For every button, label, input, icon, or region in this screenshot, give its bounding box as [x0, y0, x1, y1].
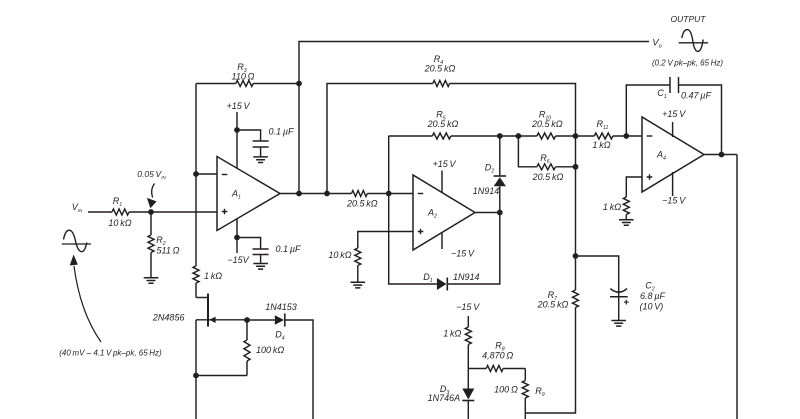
wire C1 loop — [626, 85, 670, 136]
wire rail D vertical — [575, 136, 577, 290]
node Vo label — [652, 38, 661, 50]
ground under A1 -15V cap — [253, 264, 268, 270]
svg-text:1 kΩ: 1 kΩ — [443, 329, 461, 339]
source sine symbol — [62, 230, 91, 251]
wire R7 to bottom corner — [525, 308, 575, 414]
wire A1 +15V supply pin — [226, 101, 250, 168]
wire A1 -15V supply pin — [227, 219, 249, 266]
svg-text:+15 V: +15 V — [662, 109, 686, 119]
ground under A4 1k — [619, 220, 634, 226]
ground under 10k — [351, 282, 366, 288]
svg-text:(40 mV – 4.1 V pk–pk, 65 Hz): (40 mV – 4.1 V pk–pk, 65 Hz) — [59, 349, 162, 358]
wire source line off page — [195, 376, 197, 419]
node rail D top junction — [573, 133, 579, 139]
svg-text:1N914: 1N914 — [473, 186, 500, 196]
wire A2 -15V supply pin — [442, 233, 475, 259]
resistor 1k zener branch — [443, 316, 471, 369]
op-amp A2 — [413, 175, 475, 250]
wire D1 to A2 output — [448, 213, 500, 285]
svg-text:0.1 µF: 0.1 µF — [276, 244, 301, 254]
node A2 output junction — [497, 210, 503, 216]
label -15V zener branch — [456, 302, 480, 312]
wire A2 +15V supply pin — [432, 159, 456, 193]
op-amp A4 — [642, 117, 704, 192]
output sine symbol — [679, 30, 709, 52]
wire A1 - input — [196, 173, 217, 175]
node A1 -15V bypass tap — [234, 235, 240, 241]
svg-text:R9: R9 — [535, 386, 545, 398]
ground under C2 — [611, 321, 626, 327]
svg-text:0.47 µF: 0.47 µF — [681, 91, 712, 101]
ground under R2 — [144, 278, 159, 284]
node A4 - input junction — [623, 133, 629, 139]
svg-text:20.5 kΩ: 20.5 kΩ — [427, 119, 459, 129]
wire R4 loop — [327, 84, 433, 194]
resistor 20.5k interstage — [346, 191, 378, 209]
capacitor 0.1uF at A1 -15V — [237, 238, 301, 264]
node R6 right junction — [573, 164, 579, 170]
wire D1 feedback left — [389, 136, 437, 284]
wire JFET gate to node C — [196, 319, 247, 321]
diode D1 1N914 — [423, 272, 479, 291]
node B feedback-output junction — [296, 81, 302, 87]
svg-text:R1: R1 — [113, 196, 123, 208]
diode D3 zener 1N746A — [428, 369, 475, 419]
resistor 1k feedback — [193, 174, 222, 298]
svg-text:20.5 kΩ: 20.5 kΩ — [424, 64, 456, 74]
resistor R9 — [494, 369, 545, 414]
svg-text:−15V: −15V — [227, 255, 249, 265]
node R6 left junction — [516, 133, 522, 139]
resistor R4 — [424, 54, 456, 87]
svg-text:100 Ω: 100 Ω — [494, 385, 518, 395]
resistor R6 — [532, 153, 564, 182]
resistor R3 — [232, 62, 255, 87]
wire A4 output feedback off page — [736, 155, 738, 419]
resistor 100k — [244, 320, 284, 376]
curved arrow to source symbol — [70, 255, 101, 343]
node A1 +15V bypass tap — [234, 127, 240, 133]
wire R6 to rail D — [556, 166, 576, 168]
svg-text:1 kΩ: 1 kΩ — [603, 202, 621, 212]
svg-text:D4: D4 — [275, 330, 285, 342]
node Vin input terminal label — [72, 202, 83, 213]
wire A4 output — [704, 154, 737, 156]
svg-text:1N4153: 1N4153 — [265, 302, 297, 312]
wire A4 -15V supply pin — [662, 172, 686, 206]
wire to Vo output — [299, 42, 649, 84]
label 0.05 Vin with curved arrow — [137, 169, 166, 208]
svg-text:VIN: VIN — [72, 202, 83, 213]
svg-text:0.05 VIN: 0.05 VIN — [137, 169, 166, 180]
wire to A2 - input — [367, 193, 413, 195]
wire feedback vertical to R3 — [195, 84, 197, 175]
node D2 top junction — [497, 133, 503, 139]
svg-text:+15 V: +15 V — [226, 101, 250, 111]
resistor R7 — [537, 290, 579, 310]
capacitor 0.1uF at A1 +15V — [237, 127, 294, 157]
wire R1 to node A and A1 + input — [129, 211, 217, 213]
svg-text:10 kΩ: 10 kΩ — [328, 250, 351, 260]
node C2 tap junction — [573, 253, 579, 259]
wire R9 off page — [524, 413, 526, 419]
wire R5 to R10 — [451, 135, 537, 137]
svg-text:D2: D2 — [485, 163, 495, 175]
svg-text:110 Ω: 110 Ω — [232, 72, 255, 82]
svg-text:R11: R11 — [597, 119, 609, 131]
svg-text:6.8 µF: 6.8 µF — [640, 291, 665, 301]
svg-text:20.5 kΩ: 20.5 kΩ — [346, 199, 378, 209]
svg-text:Vo: Vo — [652, 38, 661, 50]
node A1 output junction — [296, 191, 302, 197]
wire JFET source down — [195, 320, 197, 376]
node A input divider junction — [148, 209, 154, 215]
wire C2 tap — [576, 256, 619, 289]
svg-text:2N4856: 2N4856 — [152, 313, 185, 323]
wire A4 +15V supply pin — [662, 109, 686, 137]
capacitor C1 0.47uF — [657, 77, 711, 101]
svg-text:1N746A: 1N746A — [428, 393, 461, 403]
wire source bottom rail — [196, 375, 247, 377]
wire R4 to rail D — [450, 84, 576, 137]
svg-text:(0.2 V pk–pk, 65 Hz): (0.2 V pk–pk, 65 Hz) — [652, 59, 723, 68]
resistor R5 — [427, 110, 459, 140]
wire R6 loop left — [518, 136, 537, 167]
node A4 output junction — [719, 152, 725, 158]
svg-text:1 kΩ: 1 kΩ — [204, 271, 222, 281]
node source bottom junction — [193, 373, 199, 379]
svg-text:1 kΩ: 1 kΩ — [592, 140, 610, 150]
diode D2 1N914 — [473, 136, 506, 213]
wire C1 to A4 output — [679, 85, 722, 155]
node A1 feedback junction — [193, 171, 199, 177]
wire rectifier output run left — [389, 135, 433, 137]
svg-text:10 kΩ: 10 kΩ — [108, 218, 131, 228]
svg-text:OUTPUT: OUTPUT — [671, 14, 707, 24]
wire A1 output run — [280, 193, 352, 195]
ground under A1 +15V cap — [253, 157, 268, 163]
wire D4 to right rail off page — [285, 320, 313, 419]
svg-text:1N914: 1N914 — [453, 272, 480, 282]
resistor R11 — [576, 119, 643, 150]
resistor R2 — [148, 212, 180, 278]
wire R3 left lead — [196, 83, 236, 85]
label input amplitude — [59, 349, 162, 358]
resistor R8 — [468, 341, 525, 372]
transistor Q1 2N4856 JFET — [152, 294, 216, 327]
resistor 1k at A4 + input — [603, 177, 642, 220]
svg-text:20.5 kΩ: 20.5 kΩ — [532, 172, 564, 182]
wire A2 output — [475, 212, 500, 214]
svg-text:−15 V: −15 V — [456, 302, 480, 312]
svg-text:D1: D1 — [423, 272, 433, 284]
label output amplitude — [652, 59, 723, 68]
svg-text:0.1 µF: 0.1 µF — [269, 127, 294, 137]
wire input to R1 — [88, 211, 112, 213]
svg-text:C1: C1 — [657, 88, 667, 100]
wire R10 to rail D — [556, 135, 576, 137]
wire JFET drain bend — [196, 297, 208, 299]
op-amp A1 — [217, 157, 280, 231]
svg-text:(10 V): (10 V) — [639, 302, 663, 312]
diode D4 1N4153 — [265, 302, 297, 342]
resistor 10k at A2 + input — [328, 232, 413, 283]
svg-text:511 Ω: 511 Ω — [157, 246, 180, 256]
svg-text:100 kΩ: 100 kΩ — [256, 345, 284, 355]
node C gate junction — [244, 317, 250, 323]
svg-text:−15 V: −15 V — [662, 196, 686, 206]
wire R3 to node B — [253, 83, 299, 85]
label OUTPUT — [671, 14, 707, 24]
resistor R10 — [531, 110, 563, 140]
svg-text:20.5 kΩ: 20.5 kΩ — [531, 119, 563, 129]
wire node C to D4 — [247, 319, 275, 321]
svg-text:20.5 kΩ: 20.5 kΩ — [537, 300, 569, 310]
svg-text:−15 V: −15 V — [451, 249, 475, 259]
svg-text:4,870 Ω: 4,870 Ω — [482, 351, 513, 361]
node A2 - input junction — [386, 191, 392, 197]
svg-text:+15 V: +15 V — [432, 159, 456, 169]
node R4-loop junction — [324, 191, 330, 197]
wire node B down to A1 output — [298, 84, 300, 194]
resistor R1 — [108, 196, 131, 228]
capacitor C2 6.8uF polarized — [610, 281, 665, 321]
